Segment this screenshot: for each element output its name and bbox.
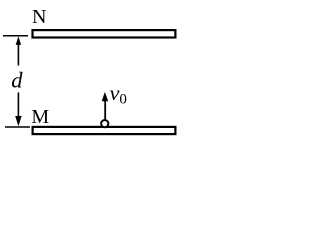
- svg-text:0: 0: [119, 92, 127, 108]
- svg-text:M: M: [31, 106, 49, 128]
- svg-text:v: v: [110, 83, 120, 105]
- svg-text:d: d: [11, 68, 23, 93]
- svg-text:N: N: [32, 6, 46, 28]
